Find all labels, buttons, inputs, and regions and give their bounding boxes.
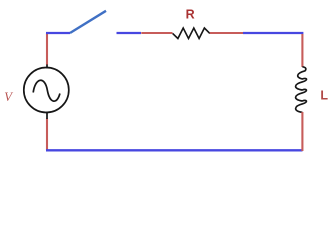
wire: left vertical (source bottom lead) [46, 119, 48, 151]
wire: red segment from resistor [210, 32, 243, 34]
wire: bottom horizontal [46, 149, 303, 151]
voltage source V: top terminal stub [46, 65, 48, 69]
wire: right vertical (inductor bottom lead) [301, 112, 303, 151]
wire: right vertical (inductor top lead) [301, 34, 303, 67]
switch S1 arm (open blade) [70, 11, 106, 33]
wire: left vertical (source top lead) [46, 33, 48, 65]
voltage source V: circle [24, 68, 69, 113]
switch S1 throw lead (blue) [117, 32, 142, 34]
svg-text:R: R [186, 8, 195, 22]
wire: red segment to resistor [141, 32, 172, 34]
svg-text:V: V [4, 90, 13, 104]
switch S1 pole lead (blue) [46, 32, 70, 34]
resistor R [173, 28, 210, 39]
svg-text:L: L [320, 88, 328, 102]
voltage source V: sine wave [33, 80, 60, 101]
wire: top right blue horizontal [243, 32, 303, 34]
inductor L coil [296, 67, 307, 113]
voltage source V: bottom terminal stub [46, 112, 48, 120]
